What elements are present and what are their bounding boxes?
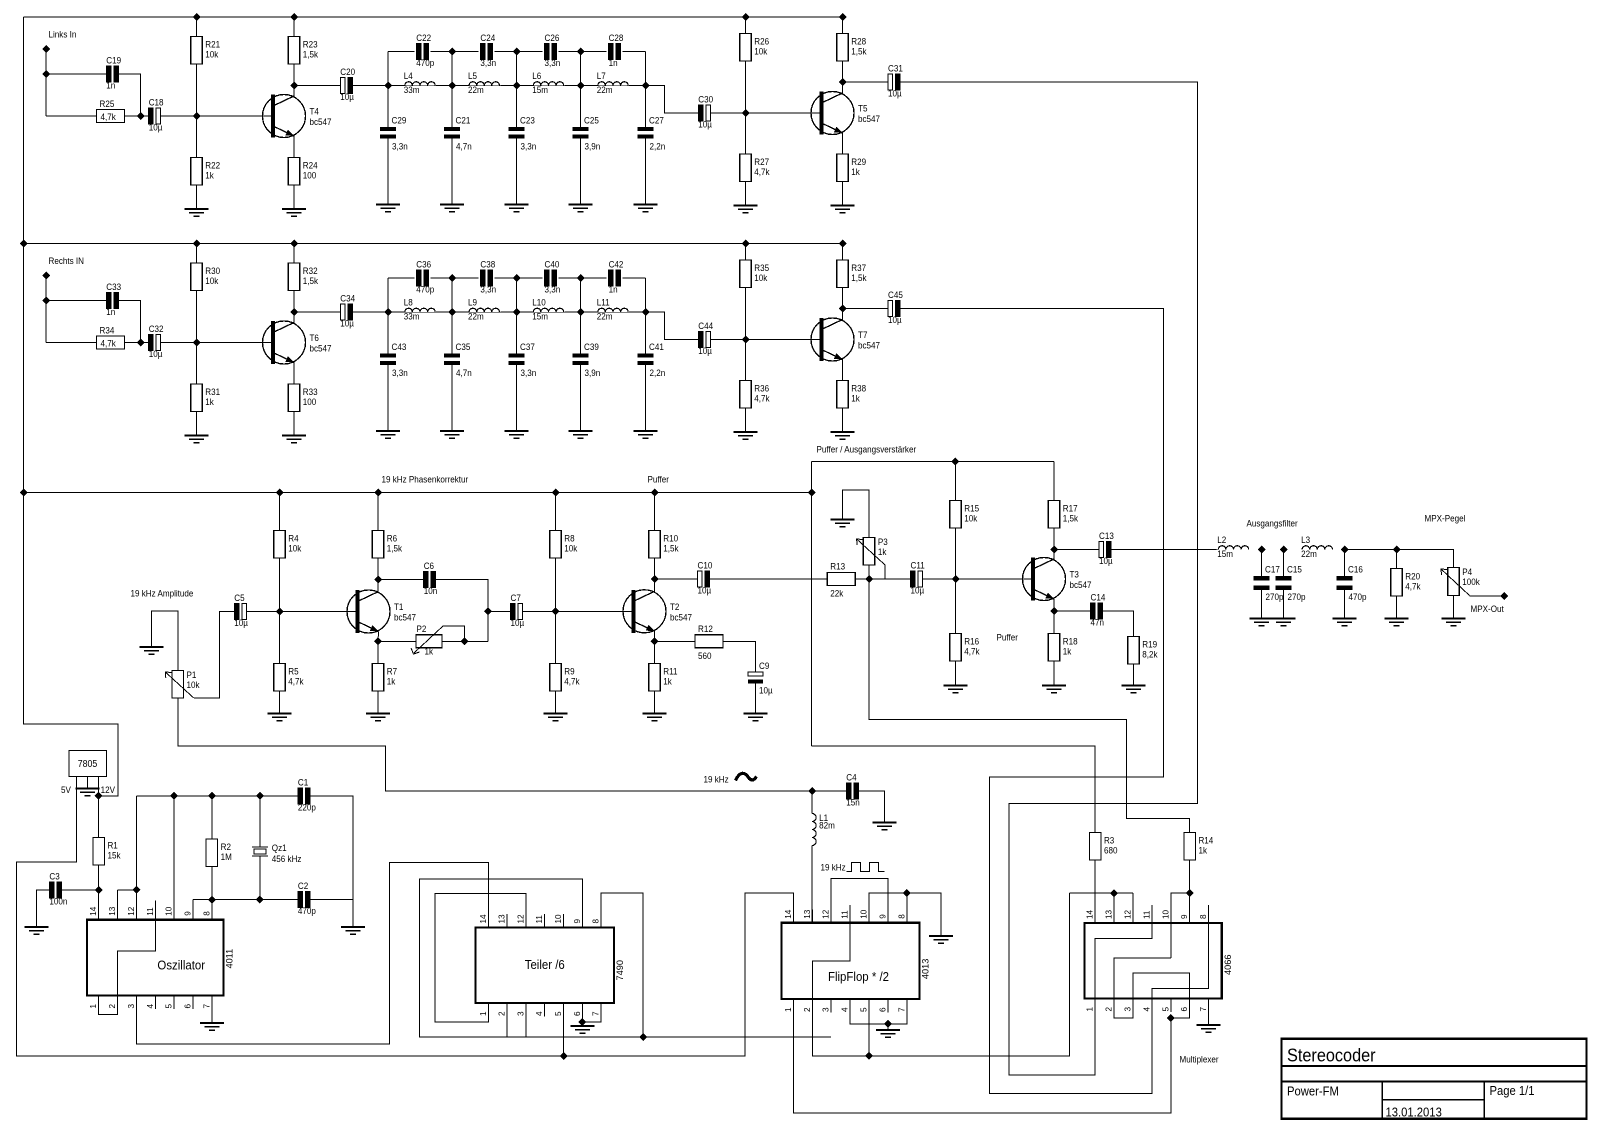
inductor L2 bbox=[1218, 546, 1248, 550]
wire C7 left bbox=[488, 610, 511, 612]
node ch1 C19/R25 junction bbox=[137, 112, 145, 120]
svg-text:C42: C42 bbox=[609, 259, 624, 270]
svg-text:L9: L9 bbox=[468, 297, 477, 308]
ground ch1 gnd R27 bbox=[734, 206, 758, 213]
wire 7490 pin3 stub bbox=[525, 1003, 527, 1037]
wire T1 emitter bbox=[377, 632, 380, 664]
node R26 rail node bbox=[742, 13, 750, 21]
resistor R15 bbox=[950, 501, 962, 529]
svg-text:19 kHz Phasenkorrektur: 19 kHz Phasenkorrektur bbox=[381, 474, 468, 485]
svg-text:10µ: 10µ bbox=[1099, 556, 1113, 567]
node R35 rail node bbox=[742, 240, 750, 248]
wire 4013 gnd stem bbox=[887, 1024, 889, 1030]
svg-text:C40: C40 bbox=[544, 259, 559, 270]
svg-text:9: 9 bbox=[878, 914, 887, 919]
ground gnd R19 bbox=[1122, 686, 1146, 693]
wire R17 top bbox=[1053, 462, 1055, 501]
node filter2 node 387.5 bbox=[384, 308, 392, 316]
wire 4013 pin10-pin8 gnd bbox=[869, 893, 941, 936]
wire filter2 shunt gnd 645 bbox=[645, 365, 647, 431]
capacitor C26 bbox=[545, 44, 550, 60]
svg-text:10k: 10k bbox=[187, 680, 201, 691]
wire osc gnd stem bbox=[352, 900, 354, 927]
capacitor C24 bbox=[480, 44, 485, 60]
node midrail-border junction bbox=[20, 489, 28, 497]
svg-text:C22: C22 bbox=[416, 33, 431, 44]
wire 7805 gnd stub bbox=[87, 777, 89, 789]
svg-text:4,7k: 4,7k bbox=[288, 676, 304, 687]
wire filter1 shunt gnd 645 bbox=[645, 139, 647, 205]
capacitor C33 bbox=[106, 293, 111, 309]
svg-text:bc547: bc547 bbox=[670, 612, 692, 623]
svg-text:10µ: 10µ bbox=[149, 349, 163, 360]
svg-text:10µ: 10µ bbox=[888, 88, 902, 99]
svg-text:C37: C37 bbox=[520, 342, 535, 353]
wire T1 collector-C6 bbox=[378, 579, 424, 581]
ground gnd R20 bbox=[1385, 619, 1409, 626]
svg-text:11: 11 bbox=[146, 907, 155, 916]
wire 4013 pin11 internal to control net bbox=[812, 893, 1069, 1056]
svg-text:14: 14 bbox=[784, 909, 793, 919]
wire filter2 shunt stem 516 bbox=[516, 312, 518, 354]
svg-text:470p: 470p bbox=[416, 58, 434, 69]
wire 7490 pin5 5V bbox=[563, 1003, 565, 1056]
potentiometer P1 bbox=[172, 671, 184, 699]
svg-text:10k: 10k bbox=[205, 49, 219, 60]
resistor R25 bbox=[97, 110, 125, 123]
transistor T7 bbox=[811, 318, 854, 361]
node R10 rail node bbox=[651, 489, 659, 497]
wire 4066 switch Z2 (pin10-pin2) bbox=[1114, 958, 1190, 1018]
svg-text:6: 6 bbox=[878, 1007, 887, 1012]
inductor L9 bbox=[469, 308, 499, 312]
svg-text:C25: C25 bbox=[584, 115, 599, 126]
ground ch1 gnd R24 bbox=[282, 209, 306, 216]
ground filter1 gnd 516 bbox=[505, 205, 529, 212]
svg-text:1: 1 bbox=[1086, 1007, 1095, 1012]
wire T2 emitter bbox=[654, 631, 656, 663]
wire R15 top bbox=[955, 462, 957, 501]
svg-text:L2: L2 bbox=[1217, 535, 1226, 546]
svg-text:4013: 4013 bbox=[921, 959, 931, 979]
svg-text:bc547: bc547 bbox=[1069, 580, 1091, 591]
svg-text:10: 10 bbox=[165, 906, 174, 916]
wire P2 wiper link bbox=[443, 626, 465, 641]
resistor R28 bbox=[837, 34, 849, 62]
wire R5 gnd bbox=[279, 691, 281, 714]
node T3 rail junction bbox=[808, 489, 816, 497]
svg-text:3: 3 bbox=[822, 1007, 831, 1012]
svg-text:10µ: 10µ bbox=[698, 119, 712, 130]
svg-text:1,5k: 1,5k bbox=[663, 543, 679, 554]
node T4 collector node bbox=[290, 82, 298, 90]
ground gnd C16 bbox=[1333, 619, 1357, 626]
capacitor C11 bbox=[911, 571, 916, 587]
node 4013 pin5 ctrl node bbox=[865, 1052, 873, 1060]
wire C20-filter1 bbox=[352, 85, 388, 87]
ground gnd P3 top bbox=[831, 520, 855, 527]
node 4013 pin8 node bbox=[903, 889, 911, 897]
svg-text:T6: T6 bbox=[310, 333, 320, 344]
node R21 rail node bbox=[193, 13, 201, 21]
svg-text:6: 6 bbox=[184, 1004, 193, 1009]
svg-text:Stereocoder: Stereocoder bbox=[1287, 1045, 1376, 1066]
wire R26-R27 bbox=[745, 61, 747, 154]
svg-text:4: 4 bbox=[146, 1004, 155, 1009]
wire 7490 pins6-7 gnd bbox=[582, 1003, 601, 1022]
wire 4011 pins1-2 link bbox=[99, 1009, 118, 1015]
node filter1 top node 451.5 bbox=[448, 48, 456, 56]
node R28 rail node bbox=[839, 13, 847, 21]
node P2 wiper node bbox=[461, 637, 469, 645]
svg-text:C34: C34 bbox=[340, 293, 355, 304]
svg-text:10k: 10k bbox=[288, 543, 302, 554]
svg-text:470p: 470p bbox=[1349, 592, 1367, 603]
svg-text:7: 7 bbox=[592, 1011, 601, 1016]
wire P1 top to gnd link bbox=[152, 611, 178, 671]
wire 4066 pin10 branch bbox=[1171, 893, 1190, 958]
svg-text:14: 14 bbox=[479, 914, 488, 924]
node ch1 input branch bbox=[42, 70, 50, 78]
wire C17 stem bbox=[1261, 550, 1263, 577]
transistor T3 bbox=[1023, 558, 1066, 601]
svg-text:22m: 22m bbox=[1301, 549, 1317, 560]
svg-text:15k: 15k bbox=[107, 850, 121, 861]
svg-text:C39: C39 bbox=[584, 342, 599, 353]
svg-text:1k: 1k bbox=[425, 646, 434, 657]
wire P1 bottom to 19kHz line bbox=[178, 698, 812, 791]
svg-text:5: 5 bbox=[554, 1011, 563, 1016]
svg-text:1k: 1k bbox=[851, 167, 860, 178]
svg-text:C28: C28 bbox=[609, 33, 624, 44]
svg-text:100n: 100n bbox=[49, 896, 67, 907]
svg-text:4,7k: 4,7k bbox=[964, 646, 980, 657]
wire R24 gnd bbox=[293, 185, 295, 209]
wire ch1 C19 right bbox=[118, 74, 141, 116]
svg-text:3,3n: 3,3n bbox=[480, 284, 496, 295]
wire R20 stem bbox=[1396, 550, 1398, 569]
resistor R19 bbox=[1128, 637, 1140, 665]
node T2 collector node bbox=[651, 575, 659, 583]
svg-text:bc547: bc547 bbox=[394, 612, 416, 623]
svg-text:3,3n: 3,3n bbox=[480, 58, 496, 69]
wire filter2 drop x516 bbox=[516, 278, 518, 312]
wire filter2 drop x645 bbox=[645, 278, 647, 312]
svg-text:C6: C6 bbox=[424, 561, 435, 572]
svg-text:T7: T7 bbox=[858, 330, 868, 341]
svg-text:T4: T4 bbox=[310, 106, 320, 117]
svg-text:Power-FM: Power-FM bbox=[1287, 1084, 1339, 1099]
svg-text:C23: C23 bbox=[520, 115, 535, 126]
svg-text:456 kHz: 456 kHz bbox=[272, 854, 302, 865]
ground gnd C15 bbox=[1272, 619, 1296, 626]
svg-text:C11: C11 bbox=[910, 560, 924, 571]
svg-text:11: 11 bbox=[1142, 910, 1151, 919]
wire filter1 shunt stem 387.5 bbox=[387, 86, 389, 128]
ground gnd R11 bbox=[643, 714, 667, 721]
capacitor C4 bbox=[846, 783, 851, 799]
svg-text:6: 6 bbox=[1180, 1007, 1189, 1012]
node ch2 base node bbox=[193, 339, 201, 347]
node R37 rail node bbox=[839, 240, 847, 248]
svg-text:11: 11 bbox=[841, 910, 850, 919]
wire T4 collector bbox=[293, 64, 295, 97]
svg-text:10µ: 10µ bbox=[698, 346, 712, 357]
svg-text:8: 8 bbox=[592, 919, 601, 924]
svg-text:3: 3 bbox=[516, 1011, 525, 1016]
wire 5V rail bbox=[17, 777, 794, 1057]
wire 4066 pin7 gnd stem bbox=[1208, 999, 1210, 1026]
wire P4 gnd bbox=[1453, 596, 1455, 619]
svg-text:C14: C14 bbox=[1091, 592, 1106, 603]
wire R6 top bbox=[377, 493, 379, 531]
svg-text:270p: 270p bbox=[1288, 592, 1306, 603]
capacitor C30 bbox=[698, 105, 703, 121]
wire R19 gnd bbox=[1133, 664, 1135, 686]
svg-text:T2: T2 bbox=[670, 601, 680, 612]
svg-text:1n: 1n bbox=[609, 284, 618, 295]
svg-text:T3: T3 bbox=[1069, 569, 1079, 580]
wire pin9 stub up bbox=[192, 900, 194, 920]
resistor R32 bbox=[288, 263, 300, 291]
ground filter1 gnd 580 bbox=[569, 205, 593, 212]
wire P4 wiper out bbox=[1470, 595, 1505, 597]
svg-text:2: 2 bbox=[498, 1011, 507, 1016]
svg-text:C18: C18 bbox=[149, 97, 164, 108]
svg-text:C19: C19 bbox=[106, 55, 121, 66]
inductor L11 bbox=[598, 308, 628, 312]
inductor L1 bbox=[812, 814, 816, 846]
svg-text:4066: 4066 bbox=[1223, 955, 1233, 975]
svg-text:C27: C27 bbox=[649, 115, 664, 126]
svg-text:7: 7 bbox=[1199, 1007, 1208, 1012]
wire R7 gnd bbox=[377, 691, 379, 714]
wire rail to R3 bbox=[812, 746, 1096, 832]
wire 4013 pin5 stub bbox=[868, 999, 870, 1056]
node T6 collector node bbox=[290, 308, 298, 316]
wire 7490 pin2 stub bbox=[506, 1003, 508, 1037]
svg-text:22m: 22m bbox=[597, 85, 613, 96]
wire T2 collector bbox=[654, 558, 656, 592]
svg-text:C38: C38 bbox=[480, 259, 495, 270]
wire filter2 out bbox=[646, 312, 699, 340]
svg-text:3,9n: 3,9n bbox=[585, 141, 601, 152]
svg-text:680: 680 bbox=[1104, 845, 1118, 856]
svg-text:3: 3 bbox=[1124, 1007, 1133, 1012]
svg-text:C43: C43 bbox=[392, 342, 407, 353]
resistor R9 bbox=[550, 664, 562, 692]
node pin12/13 node bbox=[133, 886, 141, 894]
svg-text:12: 12 bbox=[1124, 909, 1133, 919]
wire T1 collector bbox=[377, 558, 379, 592]
node 12V node bbox=[95, 792, 103, 800]
wire filter2 drop x580 bbox=[580, 278, 582, 312]
ground ch2 gnd R36 bbox=[734, 432, 758, 439]
wire C2 right bbox=[309, 899, 353, 901]
svg-text:R13: R13 bbox=[830, 561, 845, 572]
node filter1 top node 516 bbox=[513, 48, 521, 56]
ground gnd 4013 bbox=[876, 1030, 900, 1037]
wire T7 emitter bbox=[842, 359, 844, 381]
svg-text:1k: 1k bbox=[878, 547, 887, 558]
wire filter1 shunt gnd 387.5 bbox=[387, 139, 389, 205]
svg-text:14: 14 bbox=[1086, 909, 1095, 919]
svg-text:15n: 15n bbox=[846, 797, 860, 808]
wire T4 emitter bbox=[293, 136, 295, 158]
svg-text:8,2k: 8,2k bbox=[1142, 649, 1158, 660]
node rechts-in terminal bbox=[42, 272, 50, 280]
svg-text:3,3n: 3,3n bbox=[544, 284, 560, 295]
node filter2 top node 580 bbox=[577, 274, 585, 282]
wire R33 gnd bbox=[293, 412, 295, 436]
wire channel2 top rail bbox=[24, 243, 843, 245]
svg-text:C3: C3 bbox=[49, 871, 60, 882]
resistor R26 bbox=[740, 34, 752, 62]
svg-text:FlipFlop * /2: FlipFlop * /2 bbox=[828, 969, 889, 984]
wire filter1 shunt stem 451.5 bbox=[451, 86, 453, 128]
wire R30-R31 bbox=[196, 291, 198, 385]
svg-text:1,5k: 1,5k bbox=[387, 543, 403, 554]
wire filter2 shunt gnd 580 bbox=[580, 365, 582, 431]
svg-text:5: 5 bbox=[860, 1007, 869, 1012]
wire T4 collector-C20 bbox=[294, 85, 341, 87]
wire 4013 pin1 to 4066 pin5 bbox=[793, 999, 1170, 1113]
svg-text:2,2n: 2,2n bbox=[650, 141, 666, 152]
wire 4066 switch Z4 (pin8-pin4) bbox=[1152, 905, 1209, 1094]
wire channel1 top rail bbox=[24, 16, 843, 18]
svg-text:C44: C44 bbox=[698, 321, 713, 332]
wire C16 stem bbox=[1344, 550, 1346, 577]
ground filter2 gnd 580 bbox=[569, 431, 593, 438]
wire ch2 R34-C32 bbox=[125, 342, 150, 344]
wire outline to P4 bbox=[1345, 550, 1454, 568]
transistor T1 bbox=[347, 590, 390, 633]
wire R3 to 4066 pin14 bbox=[1094, 860, 1096, 923]
wire T3 collector-C13 bbox=[1054, 549, 1099, 551]
svg-text:1: 1 bbox=[479, 1011, 488, 1016]
ground filter2 gnd 451.5 bbox=[440, 431, 464, 438]
svg-text:3,3n: 3,3n bbox=[521, 141, 537, 152]
ground gnd osc bbox=[341, 927, 365, 934]
svg-text:C21: C21 bbox=[456, 115, 471, 126]
resistor R18 bbox=[1048, 634, 1060, 662]
svg-text:1n: 1n bbox=[609, 58, 618, 69]
node filter2 top node 451.5 bbox=[448, 274, 456, 282]
svg-text:MPX-Out: MPX-Out bbox=[1470, 604, 1504, 615]
node R23 rail node bbox=[290, 13, 298, 21]
resistor R22 bbox=[191, 158, 203, 186]
svg-text:3,3n: 3,3n bbox=[392, 141, 408, 152]
svg-text:12: 12 bbox=[127, 906, 136, 916]
wire P3 wiper to base line bbox=[884, 565, 886, 579]
svg-text:Puffer: Puffer bbox=[648, 474, 670, 485]
svg-text:bc547: bc547 bbox=[310, 343, 332, 354]
svg-text:C16: C16 bbox=[1348, 564, 1363, 575]
svg-text:R34: R34 bbox=[100, 325, 115, 336]
wire R2 top bbox=[211, 796, 213, 839]
wire filter2 shunt stem 645 bbox=[645, 312, 647, 354]
ground filter1 gnd 645 bbox=[634, 205, 658, 212]
regulator 7805 bbox=[69, 751, 107, 777]
wire C15 stem bbox=[1283, 550, 1285, 577]
wire Qz1 top bbox=[259, 796, 261, 847]
node T1 base node bbox=[276, 608, 284, 616]
resistor R34 bbox=[97, 336, 125, 349]
svg-text:10µ: 10µ bbox=[910, 585, 924, 596]
svg-text:C2: C2 bbox=[298, 881, 309, 892]
svg-text:L5: L5 bbox=[468, 71, 477, 82]
wire filter2 shunt stem 451.5 bbox=[451, 312, 453, 354]
node C3 node bbox=[95, 886, 103, 894]
ground gnd R9 bbox=[544, 714, 568, 721]
resistor R2 bbox=[206, 839, 218, 867]
wire R37 top bbox=[842, 244, 844, 261]
wire ch2 C32-base bbox=[161, 342, 272, 344]
svg-text:22k: 22k bbox=[830, 588, 844, 599]
svg-text:R12: R12 bbox=[698, 623, 713, 634]
resistor R6 bbox=[372, 531, 384, 559]
svg-text:10µ: 10µ bbox=[888, 315, 902, 326]
svg-text:C4: C4 bbox=[846, 772, 857, 783]
node 7490 gnd node bbox=[578, 1018, 586, 1026]
svg-text:C7: C7 bbox=[511, 592, 522, 603]
wire C11-T3 base bbox=[923, 578, 1032, 580]
wire filter1 shunt stem 580 bbox=[580, 86, 582, 128]
wire pin10 line bbox=[173, 796, 175, 920]
node T5 base node bbox=[742, 109, 750, 117]
wire filter1 drop x516 bbox=[516, 52, 518, 86]
wire R32 top bbox=[293, 244, 295, 264]
resistor R3 bbox=[1089, 833, 1101, 861]
wire ch1 C19 top branch bbox=[46, 73, 107, 75]
svg-text:C10: C10 bbox=[698, 560, 713, 571]
wire C13-output filter bbox=[1111, 549, 1218, 551]
wire R27 gnd bbox=[745, 182, 747, 206]
wire C10-R13 bbox=[710, 578, 828, 580]
svg-text:1k: 1k bbox=[205, 170, 214, 181]
wire ch1 input drop bbox=[45, 49, 47, 116]
resistor R17 bbox=[1048, 501, 1060, 529]
node osc rail R2 node bbox=[208, 792, 216, 800]
wire R21 top bbox=[196, 17, 198, 37]
wire 4013 pins4-6-7 gnd bbox=[850, 999, 907, 1024]
svg-text:Multiplexer: Multiplexer bbox=[1179, 1054, 1218, 1065]
wire Qz1 bottom bbox=[259, 856, 261, 900]
wire ch1 base wire left bbox=[46, 115, 97, 117]
wire C17 gnd bbox=[1261, 590, 1263, 619]
svg-text:L6: L6 bbox=[532, 71, 541, 82]
capacitor C42 bbox=[609, 270, 614, 286]
wire R38 gnd bbox=[842, 408, 844, 432]
svg-text:15m: 15m bbox=[1217, 549, 1233, 560]
wire R14 bottom bbox=[1189, 860, 1191, 923]
svg-text:4,7n: 4,7n bbox=[456, 368, 472, 379]
resistor R23 bbox=[288, 37, 300, 65]
svg-text:Rechts IN: Rechts IN bbox=[49, 256, 85, 267]
wire control A to 4066 pins 12-13 bbox=[1069, 892, 1133, 894]
node filter1 node 580 bbox=[577, 82, 585, 90]
svg-text:1k: 1k bbox=[1198, 845, 1207, 856]
svg-text:5V: 5V bbox=[61, 785, 71, 796]
svg-text:8: 8 bbox=[202, 911, 211, 916]
inductor L3 bbox=[1302, 546, 1332, 550]
resistor R21 bbox=[191, 37, 203, 65]
wire C3 left gnd bbox=[37, 890, 50, 927]
svg-text:7490: 7490 bbox=[615, 960, 625, 980]
wire 4011 pin11 internal link bbox=[118, 901, 156, 996]
node outfilter node1 bbox=[1258, 546, 1266, 554]
svg-text:1k: 1k bbox=[205, 397, 214, 408]
